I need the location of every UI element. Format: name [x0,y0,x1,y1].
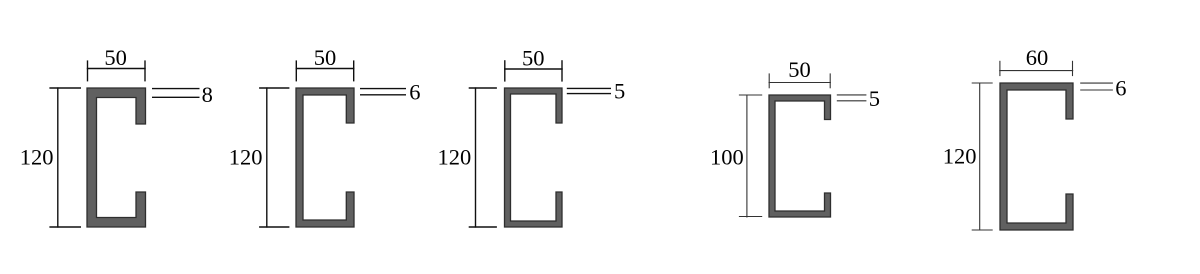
svg-text:50: 50 [314,45,337,70]
dimension height 120 of P3 [469,87,497,227]
channel profile P2 (C 120x50x6) [296,88,354,227]
svg-text:120: 120 [437,145,471,170]
svg-text:50: 50 [522,46,545,71]
label 120 of P5 [943,144,977,169]
label 8 of P1 [202,82,213,107]
channel profile P5 (C 120x60x6) [1000,83,1073,230]
svg-text:60: 60 [1026,45,1049,70]
thickness callout 5 of P4 [837,95,867,101]
svg-text:100: 100 [710,145,744,170]
channel profile P4 (C 100x50x5) [769,95,831,217]
label 5 of P3 [614,79,625,104]
dimension height 120 of P5 [972,83,993,231]
thickness callout 8 of P1 [152,89,200,98]
label 6 of P2 [409,80,420,105]
label 6 of P5 [1115,75,1126,100]
thickness callout 6 of P2 [360,89,406,95]
channel profile P3 (C 120x50x5) [505,88,563,227]
dimension height 120 of P2 [259,87,289,227]
channel profile P1 (C 120x50x8) [87,88,146,227]
dimension height 120 of P1 [49,87,81,227]
label 100 of P4 [710,145,744,170]
label 120 of P1 [20,145,54,170]
dimension width 50 of P1 [87,60,146,81]
svg-text:120: 120 [943,144,977,169]
dimension width 50 of P3 [504,60,563,81]
svg-text:120: 120 [20,145,54,170]
svg-text:50: 50 [788,57,811,82]
dimension width 50 of P2 [296,60,355,81]
svg-text:120: 120 [229,145,263,170]
dimension width 50 of P4 [769,73,831,88]
svg-text:8: 8 [202,82,213,107]
dimension height 100 of P4 [739,95,762,218]
thickness callout 6 of P5 [1080,83,1113,90]
label 60 of P5 [1026,45,1049,70]
label 50 of P1 [104,45,127,70]
dimension width 60 of P5 [999,61,1073,76]
label 5 of P4 [869,86,880,111]
svg-text:5: 5 [869,86,880,111]
svg-text:50: 50 [104,45,127,70]
svg-text:6: 6 [1115,75,1126,100]
label 50 of P3 [522,46,545,71]
svg-text:6: 6 [409,80,420,105]
label 50 of P2 [314,45,337,70]
label 120 of P2 [229,145,263,170]
label 120 of P3 [437,145,471,170]
svg-text:5: 5 [614,79,625,104]
label 50 of P4 [788,57,811,82]
thickness callout 5 of P3 [567,88,611,93]
